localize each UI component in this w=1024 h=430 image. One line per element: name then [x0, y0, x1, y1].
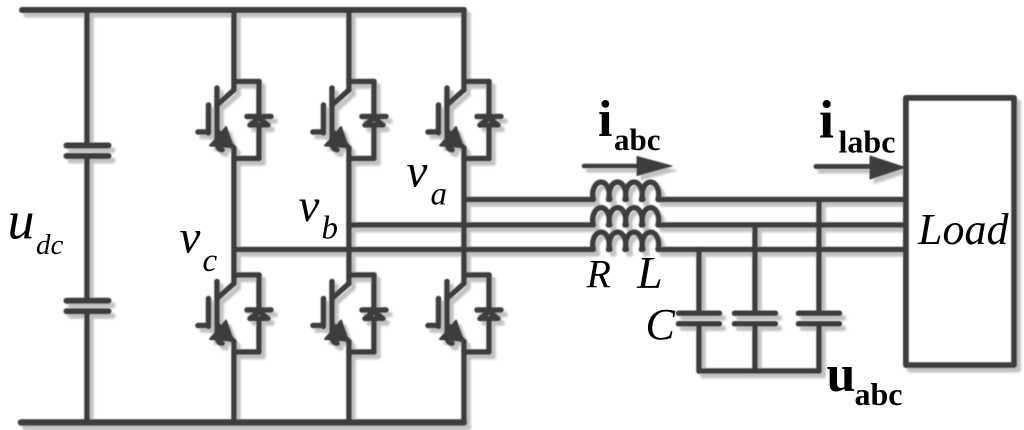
- svg-text:i: i: [819, 90, 834, 150]
- svg-text:L: L: [636, 247, 663, 298]
- wire: top DC rail: [22, 7, 464, 13]
- inductor L (phase c): [593, 232, 660, 249]
- svg-text:abc: abc: [855, 376, 903, 412]
- transistor Q6 (phase a lower): [428, 282, 464, 344]
- wire: capacitor-bank common bar: [699, 368, 819, 374]
- capacitor C (phase c filter): [679, 250, 720, 372]
- capacitor C1 (upper DC-link): [67, 146, 109, 157]
- svg-text:R: R: [586, 252, 611, 297]
- wire: bottom DC rail: [21, 419, 464, 426]
- capacitor C2 (lower DC-link): [67, 301, 109, 312]
- svg-text:c: c: [203, 243, 218, 279]
- svg-text:labc: labc: [839, 124, 896, 160]
- svg-text:C: C: [646, 300, 676, 349]
- svg-text:v: v: [180, 212, 201, 264]
- svg-text:abc: abc: [614, 122, 661, 157]
- svg-text:dc: dc: [36, 229, 64, 261]
- arrow: i_abc current direction: [584, 157, 672, 176]
- diode D5 (antiparallel): [464, 82, 501, 159]
- svg-text:a: a: [431, 177, 448, 213]
- svg-text:u: u: [8, 191, 35, 251]
- capacitor C (phase a filter): [799, 200, 840, 372]
- transistor Q4 (phase b lower): [313, 282, 349, 344]
- transistor Q5 (phase a upper): [428, 88, 464, 150]
- diode D6 (antiparallel): [464, 275, 501, 352]
- inductor L (phase a): [593, 182, 660, 199]
- svg-text:i: i: [598, 91, 612, 148]
- svg-text:v: v: [299, 180, 320, 232]
- wire: phase c output line: [234, 247, 904, 253]
- diode D1 (antiparallel): [234, 82, 271, 159]
- load block: [906, 98, 1014, 365]
- arrow: i_labc load current direction: [816, 156, 905, 179]
- transistor Q3 (phase b upper): [313, 88, 349, 150]
- transistor Q1 (phase c upper): [198, 88, 234, 150]
- wire: phase a output line: [464, 197, 904, 203]
- wire: DC-link bus vertical: [84, 10, 90, 422]
- svg-text:Load: Load: [917, 205, 1009, 254]
- diode D2 (antiparallel): [234, 275, 271, 352]
- wire: phase-a leg vertical: [461, 10, 467, 422]
- diode D3 (antiparallel): [349, 82, 386, 159]
- svg-text:u: u: [827, 346, 856, 403]
- inductor L (phase b): [593, 208, 660, 225]
- wire: phase-c leg vertical: [231, 10, 237, 422]
- capacitor C (phase b filter): [735, 225, 776, 371]
- transistor Q2 (phase c lower): [198, 282, 234, 344]
- diode D4 (antiparallel): [349, 275, 386, 352]
- wire: phase b output line: [349, 222, 904, 228]
- svg-text:b: b: [322, 211, 339, 247]
- wire: phase-b leg vertical: [346, 10, 352, 422]
- svg-text:v: v: [407, 146, 428, 198]
